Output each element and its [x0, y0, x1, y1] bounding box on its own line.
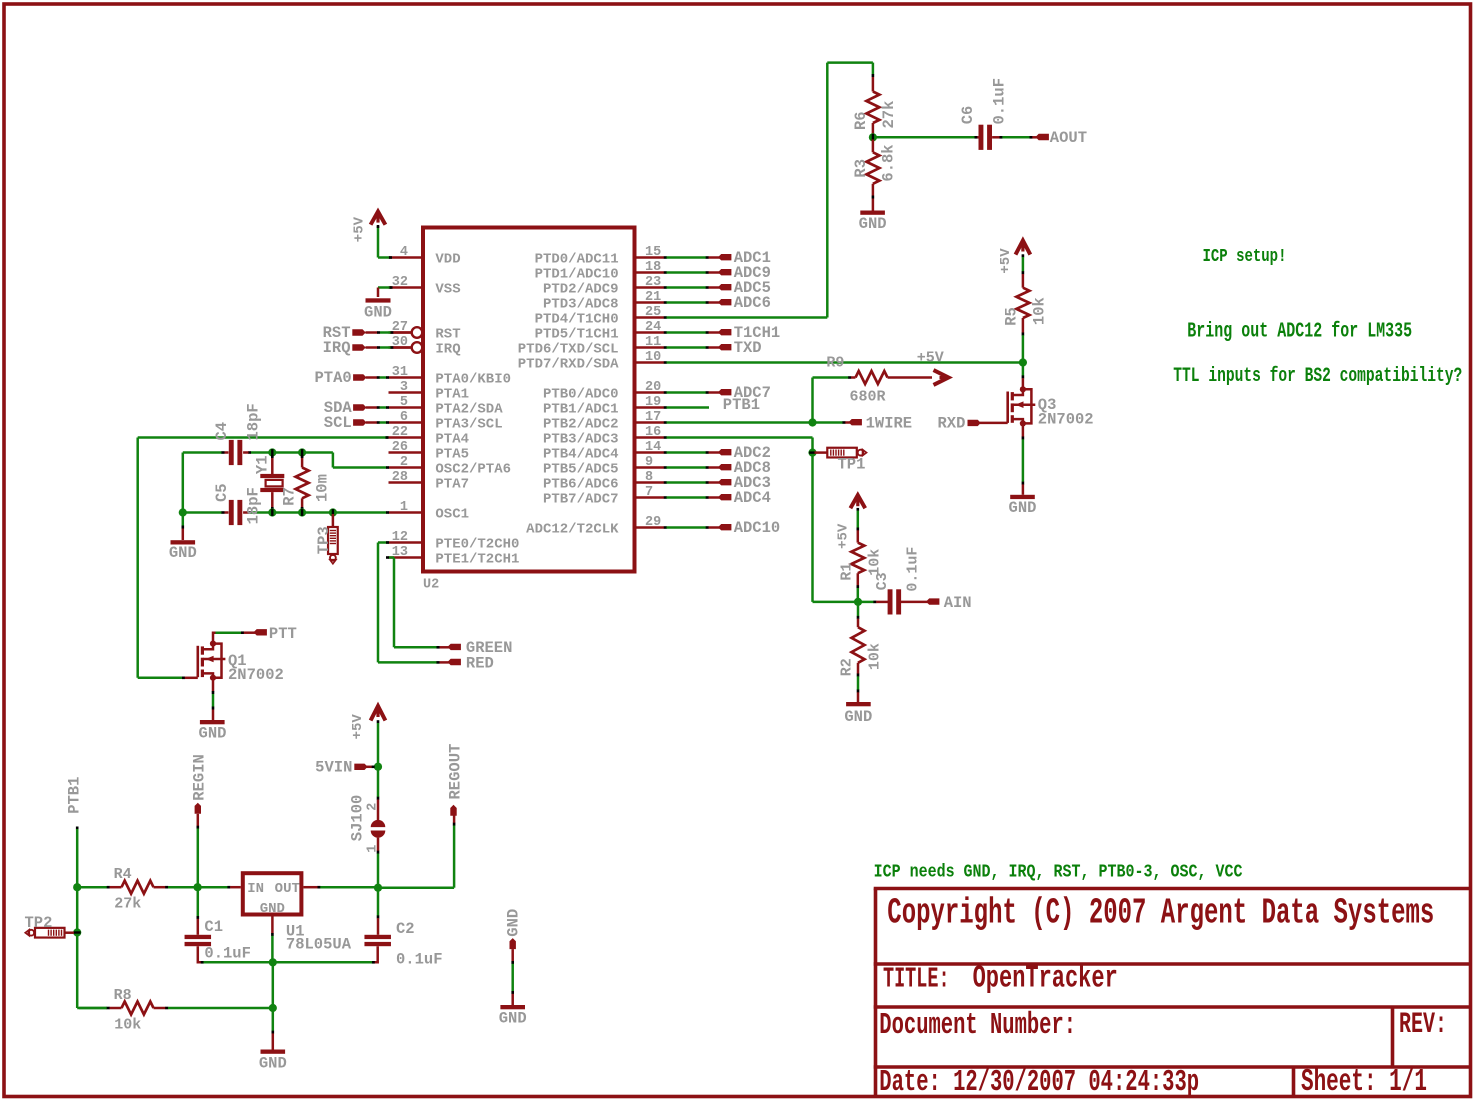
svg-text:ADC10: ADC10: [734, 519, 781, 537]
pin 14 PTB4/ADC4 (U2 right): [543, 440, 664, 462]
ground (Q3): [1009, 495, 1037, 517]
svg-text:GND: GND: [199, 725, 227, 743]
svg-text:PTA1: PTA1: [435, 386, 469, 402]
node R8 junction: [269, 1004, 277, 1012]
wire C6 to AOUT: [1002, 136, 1038, 139]
ground (stub): [499, 1005, 527, 1028]
svg-text:R5: R5: [1003, 307, 1021, 326]
node REGIN junction: [194, 883, 202, 891]
transistor Q1 2N7002: [198, 641, 284, 685]
svg-text:PTD7/RXD/SDA: PTD7/RXD/SDA: [518, 356, 619, 372]
svg-text:11: 11: [645, 335, 661, 350]
svg-text:6.8k: 6.8k: [880, 144, 898, 181]
pin 7 PTB7/ADC7 (U2 right): [543, 485, 664, 507]
svg-text:PTD4/T1CH0: PTD4/T1CH0: [535, 311, 619, 327]
note ICP setup: [1203, 245, 1287, 267]
svg-text:TP1: TP1: [838, 455, 866, 473]
svg-text:9: 9: [645, 455, 653, 470]
node ADC5 flag: [664, 279, 771, 297]
node RST flag: [323, 324, 412, 342]
svg-text:REV:: REV:: [1399, 1007, 1447, 1041]
wire +5V to SJ100: [377, 720, 380, 765]
svg-text:PTB4/ADC4: PTB4/ADC4: [543, 446, 619, 462]
node ADC8 flag: [664, 459, 771, 477]
svg-text:PTB7/ADC7: PTB7/ADC7: [543, 491, 619, 507]
node ADC6 flag: [664, 294, 771, 312]
node ADC10 flag: [664, 519, 780, 537]
svg-text:10k: 10k: [1031, 297, 1049, 325]
svg-text:PTA5: PTA5: [435, 446, 469, 462]
wire PTD7 net: [664, 350, 1021, 367]
svg-text:31: 31: [392, 365, 408, 380]
resistor R7: [281, 455, 332, 510]
capacitor C3: [860, 547, 929, 615]
pin 20 PTB0/ADC0 (U2 right): [543, 380, 664, 402]
svg-text:PTA0: PTA0: [314, 369, 351, 387]
svg-text:0.1uF: 0.1uF: [990, 78, 1008, 125]
+5V supply (R5): [998, 241, 1030, 274]
node PTT flag: [254, 625, 297, 643]
svg-text:AOUT: AOUT: [1050, 129, 1087, 147]
node OSC2 junction Y1: [268, 448, 276, 456]
svg-text:C1: C1: [204, 918, 223, 936]
wire Q3 source to GND: [1022, 425, 1025, 495]
pin 1 OSC1 (U2 left): [389, 500, 470, 522]
ground (Q1): [199, 720, 227, 743]
svg-text:7: 7: [645, 485, 653, 500]
wire U1 GND pin: [271, 917, 274, 962]
title date: [879, 1064, 1199, 1099]
testpoint TP2: [25, 914, 75, 937]
svg-text:PTB1/ADC1: PTB1/ADC1: [543, 401, 619, 417]
svg-text:Date: 12/30/2007 04:24:33p: Date: 12/30/2007 04:24:33p: [879, 1064, 1199, 1099]
node RED flag: [448, 654, 494, 672]
wire Q1 drain to PTT: [213, 631, 256, 643]
capacitor C4: [213, 403, 262, 465]
svg-text:PTB6/ADC6: PTB6/ADC6: [543, 476, 619, 492]
svg-text:PTD5/T1CH1: PTD5/T1CH1: [535, 326, 619, 342]
svg-text:10k: 10k: [867, 643, 884, 670]
svg-text:REGIN: REGIN: [191, 754, 209, 801]
node RXD flag: [937, 415, 1007, 433]
svg-text:PTB5/ADC5: PTB5/ADC5: [543, 461, 619, 477]
note TTL: [1173, 365, 1462, 388]
pin 9 PTB5/ADC5 (U2 right): [543, 455, 664, 477]
svg-text:5: 5: [400, 395, 408, 410]
wire PTB2 net: [664, 421, 810, 424]
svg-text:10k: 10k: [867, 549, 884, 576]
node AIN flag: [926, 594, 972, 612]
svg-text:VSS: VSS: [435, 281, 460, 297]
testpoint TP3: [315, 514, 338, 564]
svg-text:3: 3: [400, 380, 408, 395]
node REGIN flag: [191, 754, 209, 885]
svg-text:OUT: OUT: [275, 881, 300, 897]
svg-text:PTE1/T2CH1: PTE1/T2CH1: [435, 551, 519, 567]
svg-text:2: 2: [366, 803, 381, 811]
svg-text:RST: RST: [435, 326, 460, 342]
ground (U1): [259, 1050, 287, 1073]
ground (R3): [859, 211, 887, 233]
resistor R2: [839, 602, 884, 702]
node TP1 junction: [808, 449, 816, 457]
svg-text:GND: GND: [259, 1055, 287, 1073]
wire REGIN to U1: [200, 886, 241, 889]
svg-text:18pF: 18pF: [244, 487, 262, 524]
pin 25 PTD4/T1CH0 (U2 right): [535, 305, 664, 327]
svg-text:4: 4: [400, 245, 408, 260]
+5V supply (regulator): [350, 706, 385, 739]
pin 6 PTA3/SCL (U2 left): [389, 410, 503, 432]
title document number: [879, 1007, 1076, 1042]
pin 12 PTE0/T2CH0 (U2 left): [389, 530, 520, 552]
node GND flag (stub): [504, 909, 522, 949]
wire VDD to +5V: [377, 225, 392, 259]
testpoint TP1: [815, 448, 867, 474]
svg-text:0.1uF: 0.1uF: [204, 945, 251, 963]
pin 32 VSS (U2 left): [389, 275, 461, 297]
svg-text:PTD0/ADC11: PTD0/ADC11: [535, 251, 619, 267]
title sheet: [1301, 1065, 1427, 1100]
svg-text:20: 20: [645, 380, 661, 395]
node ADC4 flag: [664, 489, 771, 507]
pin 22 PTA4 (U2 left): [389, 425, 470, 447]
svg-text:Y1: Y1: [254, 455, 272, 474]
svg-text:PTB2/ADC2: PTB2/ADC2: [543, 416, 619, 432]
svg-text:PTD6/TXD/SCL: PTD6/TXD/SCL: [518, 341, 619, 357]
svg-text:C4: C4: [213, 422, 231, 441]
svg-text:GND: GND: [260, 901, 285, 917]
wire SJ100 pin1: [377, 838, 380, 887]
title block frame: [874, 889, 1471, 1097]
svg-text:29: 29: [645, 515, 661, 530]
resistor R3: [852, 140, 898, 211]
pin 11 PTD6/TXD/SCL (U2 right): [518, 335, 664, 357]
svg-text:12: 12: [392, 530, 408, 545]
node R4 junction: [73, 883, 81, 891]
svg-text:19: 19: [645, 395, 661, 410]
wire Q1 source to GND: [212, 678, 215, 720]
wire PTB3 net: [664, 436, 813, 602]
pin 2 OSC2/PTA6 (U2 left): [389, 455, 512, 477]
node ADC1 flag: [664, 249, 771, 267]
svg-text:Document Number:: Document Number:: [879, 1007, 1076, 1042]
svg-text:14: 14: [645, 440, 661, 455]
svg-text:10k: 10k: [114, 1016, 141, 1033]
title copyright: [887, 894, 1434, 934]
svg-text:ADC4: ADC4: [734, 489, 771, 507]
svg-text:17: 17: [645, 410, 661, 425]
svg-text:GND: GND: [844, 708, 872, 726]
node C5 GND junction: [179, 508, 187, 516]
svg-text:TP2: TP2: [25, 914, 53, 932]
resistor R8: [79, 987, 271, 1033]
svg-text:8: 8: [645, 470, 653, 485]
svg-text:R9: R9: [826, 355, 844, 372]
wire R8 node to GND: [272, 1010, 275, 1050]
svg-text:C2: C2: [396, 920, 415, 938]
pin 10 PTD7/RXD/SDA (U2 right): [518, 350, 664, 372]
svg-text:10: 10: [645, 350, 661, 365]
svg-text:C3: C3: [874, 572, 891, 590]
node AOUT flag: [1036, 129, 1088, 147]
svg-text:R1: R1: [839, 563, 856, 581]
node REGOUT junction: [374, 884, 382, 892]
svg-text:R2: R2: [839, 658, 856, 676]
svg-text:R7: R7: [281, 487, 299, 506]
svg-text:SJ100: SJ100: [349, 795, 367, 842]
pin 28 PTA7 (U2 left): [389, 470, 470, 492]
resistor R5: [1003, 254, 1049, 361]
capacitor C6: [959, 78, 1009, 150]
svg-text:GND: GND: [499, 1010, 527, 1028]
solder jumper SJ100: [349, 795, 386, 853]
svg-text:OpenTracker: OpenTracker: [973, 961, 1118, 997]
svg-text:23: 23: [645, 275, 661, 290]
svg-text:PTD2/ADC9: PTD2/ADC9: [543, 281, 619, 297]
svg-text:C5: C5: [213, 483, 231, 502]
svg-text:28: 28: [392, 470, 408, 485]
resistor R1: [839, 508, 884, 600]
pin 18 PTD1/ADC10 (U2 right): [535, 260, 664, 282]
node REGOUT flag: [446, 744, 464, 816]
svg-text:6: 6: [400, 410, 408, 425]
node SCL flag: [324, 414, 389, 432]
pin 31 PTA0/KBI0 (U2 left): [389, 365, 512, 387]
node OSC1 junction Y1: [268, 508, 276, 516]
capacitor C2: [274, 889, 442, 968]
wire OUT node to REGOUT: [380, 815, 456, 888]
svg-text:78L05UA: 78L05UA: [286, 936, 352, 954]
wire PTB1 vertical: [76, 827, 107, 1009]
svg-text:+5V: +5V: [352, 216, 368, 242]
wire PTE0 to RED: [378, 541, 450, 663]
wire PTE1 to GREEN: [386, 556, 450, 648]
capacitor C5: [213, 483, 262, 525]
svg-text:ICP setup!: ICP setup!: [1203, 245, 1287, 267]
pin 26 PTA5 (U2 left): [389, 440, 470, 462]
svg-text:GND: GND: [859, 215, 887, 233]
svg-text:VDD: VDD: [435, 251, 460, 267]
svg-text:PTB1: PTB1: [66, 777, 84, 814]
svg-text:32: 32: [392, 275, 408, 290]
pin 15 PTD0/ADC11 (U2 right): [535, 245, 664, 267]
svg-text:PTA2/SDA: PTA2/SDA: [435, 401, 503, 417]
svg-text:2: 2: [400, 455, 408, 470]
svg-text:ICP needs GND, IRQ, RST, PTB0-: ICP needs GND, IRQ, RST, PTB0-3, OSC, VC…: [874, 862, 1243, 883]
wire VSS to GND: [378, 286, 393, 297]
node 5VIN junction: [374, 763, 382, 771]
wire GND stub: [511, 949, 514, 1005]
ground (R2): [844, 702, 872, 726]
svg-text:+5V: +5V: [350, 714, 366, 740]
wire U1 OUT: [303, 886, 377, 889]
svg-text:16: 16: [645, 425, 661, 440]
svg-text:REGOUT: REGOUT: [446, 744, 464, 800]
svg-text:PTD1/ADC10: PTD1/ADC10: [535, 266, 619, 282]
node T1CH1 flag: [664, 324, 780, 342]
wire PTB3 to AIN node: [813, 601, 858, 604]
node TXD flag: [664, 339, 762, 357]
node AIN junction: [854, 598, 862, 606]
svg-text:10m: 10m: [313, 474, 331, 502]
pin 4 VDD (U2 left): [389, 245, 461, 267]
svg-text:OSC2/PTA6: OSC2/PTA6: [435, 461, 511, 477]
pin 19 PTB1/ADC1 (U2 right): [543, 395, 664, 417]
svg-text:18: 18: [645, 260, 661, 275]
+5V supply arrow (R9): [934, 370, 949, 385]
svg-text:R4: R4: [114, 866, 132, 883]
node SDA flag: [324, 399, 389, 417]
pin 24 PTD5/T1CH1 (U2 right): [535, 320, 664, 342]
wire GND node down: [272, 964, 275, 1007]
pin 29 ADC12/T2CLK (U2 right): [526, 515, 664, 537]
pin 5 PTA2/SDA (U2 left): [389, 395, 504, 417]
pin 30 IRQ (U2 left): [389, 335, 461, 357]
svg-text:18pF: 18pF: [244, 403, 262, 440]
svg-text:TTL inputs for BS2 compatibili: TTL inputs for BS2 compatibility?: [1173, 365, 1462, 388]
svg-text:IN: IN: [247, 881, 264, 897]
svg-text:21: 21: [645, 290, 661, 305]
svg-text:TP3: TP3: [315, 526, 333, 554]
svg-text:Copyright (C) 2007 Argent Data: Copyright (C) 2007 Argent Data Systems: [887, 894, 1434, 934]
node IRQ flag: [323, 339, 412, 357]
svg-text:PTB1: PTB1: [723, 396, 760, 414]
title REV: [1399, 1007, 1447, 1041]
svg-text:24: 24: [645, 320, 661, 335]
node ADC2 flag: [664, 444, 771, 462]
title TITLE: [883, 961, 1118, 997]
capacitor C1: [185, 889, 272, 964]
svg-text:R6: R6: [852, 111, 870, 130]
resistor R9: [813, 355, 933, 406]
svg-text:+5V: +5V: [836, 523, 852, 549]
pin 16 PTB3/ADC3 (U2 right): [543, 425, 664, 447]
wire/label PTB1 (pin19): [664, 396, 760, 414]
svg-text:PTA0/KBI0: PTA0/KBI0: [435, 371, 511, 387]
crystal Y1: [254, 455, 285, 510]
note ADC12: [1187, 320, 1412, 343]
svg-text:AIN: AIN: [944, 594, 972, 612]
wire OSC1 net (C5 row): [183, 511, 389, 514]
svg-text:PTE0/T2CH0: PTE0/T2CH0: [435, 536, 519, 552]
ground (crystal): [169, 540, 197, 562]
resistor R6: [852, 77, 898, 135]
svg-text:GREEN: GREEN: [466, 639, 513, 657]
node 1WIRE flag: [815, 415, 913, 433]
node OSC1 junction R7: [298, 508, 306, 516]
node 5VIN flag: [315, 759, 375, 777]
svg-text:0.1uF: 0.1uF: [905, 547, 922, 592]
svg-text:27k: 27k: [114, 896, 141, 913]
pin 13 PTE1/T2CH1 (U2 left): [389, 545, 520, 567]
node R5/Q3 junction: [1019, 358, 1027, 366]
svg-text:PTT: PTT: [269, 625, 297, 643]
note ICP needs: [874, 862, 1243, 883]
wire divider to C6: [875, 136, 979, 139]
svg-text:5VIN: 5VIN: [315, 759, 352, 777]
node ADC9 flag: [664, 264, 771, 282]
svg-text:TITLE:: TITLE:: [883, 964, 950, 996]
pin 21 PTD3/ADC8 (U2 right): [543, 290, 664, 312]
svg-text:1WIRE: 1WIRE: [866, 415, 913, 433]
svg-text:TXD: TXD: [734, 339, 762, 357]
svg-text:IRQ: IRQ: [323, 339, 351, 357]
svg-text:ADC12/T2CLK: ADC12/T2CLK: [526, 521, 619, 537]
pin 27 RST (U2 left): [389, 320, 461, 342]
pin 3 PTA1 (U2 left): [389, 380, 470, 402]
svg-text:PTA4: PTA4: [435, 431, 469, 447]
svg-text:0.1uF: 0.1uF: [396, 950, 443, 968]
svg-text:GND: GND: [169, 544, 197, 562]
+5V supply (VDD): [352, 212, 386, 243]
pin 23 PTD2/ADC9 (U2 right): [543, 275, 664, 297]
svg-text:1: 1: [400, 500, 408, 515]
svg-text:PTA7: PTA7: [435, 476, 469, 492]
node TP2 junction: [73, 928, 81, 936]
IC U2 body: [423, 228, 635, 593]
svg-text:OSC1: OSC1: [435, 506, 469, 522]
svg-text:+5V: +5V: [998, 248, 1014, 274]
svg-text:26: 26: [392, 440, 408, 455]
regulator U1 body: [243, 873, 352, 953]
svg-text:R8: R8: [114, 987, 132, 1004]
wire to GND (crystal): [182, 513, 185, 541]
node OSC1 junction TP3: [329, 508, 337, 516]
svg-text:25: 25: [645, 305, 661, 320]
svg-text:+5V: +5V: [917, 350, 944, 367]
svg-text:Sheet: 1/1: Sheet: 1/1: [1301, 1065, 1427, 1100]
pin 8 PTB6/ADC6 (U2 right): [543, 470, 664, 492]
node 1WIRE junction: [808, 418, 816, 426]
transistor Q3 2N7002: [1008, 386, 1094, 428]
wire junction to Q3 drain: [1022, 363, 1025, 389]
svg-text:C6: C6: [959, 106, 977, 125]
node OSC2 junction R7: [298, 448, 306, 456]
node ADC7 flag: [664, 384, 771, 402]
node GREEN flag: [448, 639, 513, 657]
wire C4-C5 left leg: [182, 453, 185, 513]
svg-text:SCL: SCL: [324, 414, 352, 432]
svg-text:2N7002: 2N7002: [1038, 410, 1094, 428]
wire SJ100 pin2: [377, 768, 380, 820]
wire PTA4 to Q1 gate: [138, 436, 389, 679]
svg-text:680R: 680R: [850, 389, 886, 406]
ground (VSS): [364, 298, 392, 321]
wire OSC2 net (C4 row): [183, 451, 389, 469]
svg-text:IRQ: IRQ: [435, 341, 460, 357]
resistor R4: [79, 866, 196, 912]
svg-text:GND: GND: [504, 909, 522, 937]
node R6/R3 junction: [869, 133, 877, 141]
svg-text:GND: GND: [1009, 499, 1037, 517]
svg-text:U2: U2: [423, 578, 439, 593]
node ADC3 flag: [664, 474, 771, 492]
node C1/C2 GND junction: [269, 958, 277, 966]
svg-text:R3: R3: [852, 159, 870, 178]
pin 17 PTB2/ADC2 (U2 right): [543, 410, 664, 432]
svg-text:ADC6: ADC6: [734, 294, 771, 312]
node PTA0 flag: [314, 369, 389, 387]
svg-text:GND: GND: [364, 304, 392, 322]
svg-text:15: 15: [645, 245, 661, 260]
svg-text:RXD: RXD: [937, 415, 965, 433]
svg-text:22: 22: [392, 425, 408, 440]
node PTB1 label (bottom): [66, 777, 84, 814]
svg-text:PTD3/ADC8: PTD3/ADC8: [543, 296, 619, 312]
+5V supply (R1): [836, 495, 866, 549]
svg-text:PTA3/SCL: PTA3/SCL: [435, 416, 502, 432]
